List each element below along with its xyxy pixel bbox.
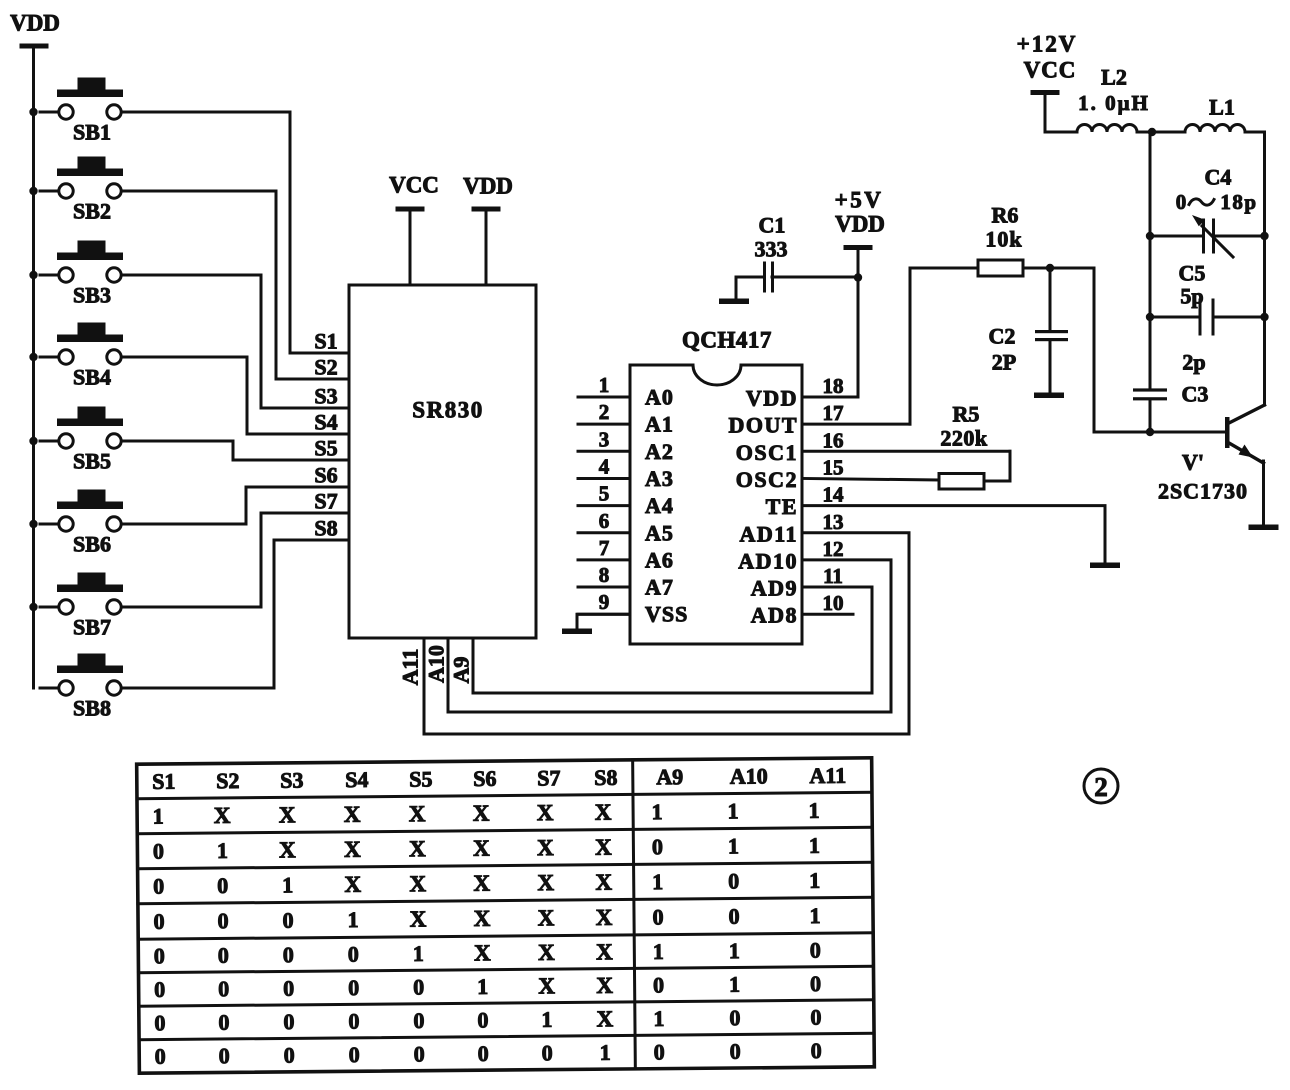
svg-text:1: 1 <box>217 838 228 863</box>
svg-text:5: 5 <box>599 482 610 506</box>
svg-text:17: 17 <box>823 401 844 425</box>
svg-text:S2: S2 <box>314 355 337 380</box>
svg-text:220k: 220k <box>940 426 988 451</box>
svg-text:1: 1 <box>728 833 739 858</box>
svg-text:1: 1 <box>809 833 820 858</box>
svg-text:A1: A1 <box>645 412 674 437</box>
svg-text:0: 0 <box>414 1041 425 1066</box>
svg-text:0: 0 <box>652 904 663 929</box>
svg-text:0: 0 <box>153 838 164 863</box>
svg-text:SR830: SR830 <box>412 398 483 423</box>
svg-text:13: 13 <box>823 510 844 534</box>
svg-text:V': V' <box>1182 450 1204 475</box>
svg-text:OSC1: OSC1 <box>736 440 798 465</box>
svg-text:X: X <box>596 1006 613 1031</box>
svg-text:X: X <box>344 802 361 827</box>
svg-text:SB1: SB1 <box>73 120 111 145</box>
svg-text:DOUT: DOUT <box>728 413 798 438</box>
svg-text:X: X <box>279 802 296 827</box>
svg-text:X: X <box>344 837 361 862</box>
svg-text:2p: 2p <box>1182 350 1205 375</box>
svg-text:12: 12 <box>823 537 844 561</box>
svg-text:A6: A6 <box>645 547 674 572</box>
svg-text:+5V: +5V <box>835 188 884 213</box>
svg-text:0: 0 <box>413 974 424 999</box>
svg-text:1: 1 <box>729 938 740 963</box>
svg-text:1: 1 <box>653 1006 664 1031</box>
svg-text:2: 2 <box>1094 772 1108 802</box>
svg-text:X: X <box>537 870 554 895</box>
svg-text:AD9: AD9 <box>751 576 798 601</box>
svg-text:0: 0 <box>810 971 821 996</box>
svg-text:A5: A5 <box>645 520 674 545</box>
svg-text:S5: S5 <box>409 766 432 791</box>
svg-text:5p: 5p <box>1180 284 1203 309</box>
svg-text:11: 11 <box>823 564 843 588</box>
svg-text:1: 1 <box>600 1040 611 1065</box>
svg-text:X: X <box>474 906 491 931</box>
svg-text:333: 333 <box>755 237 788 262</box>
svg-text:R6: R6 <box>992 203 1019 228</box>
svg-text:QCH417: QCH417 <box>682 328 772 353</box>
svg-text:X: X <box>473 801 490 826</box>
svg-text:S2: S2 <box>216 768 239 793</box>
svg-text:X: X <box>596 939 613 964</box>
svg-text:SB5: SB5 <box>73 449 111 474</box>
svg-text:0: 0 <box>348 975 359 1000</box>
svg-text:0: 0 <box>153 873 164 898</box>
svg-text:A10: A10 <box>424 645 449 683</box>
svg-text:C4: C4 <box>1205 165 1232 190</box>
svg-text:X: X <box>409 801 426 826</box>
svg-text:0: 0 <box>217 873 228 898</box>
svg-text:AD11: AD11 <box>739 521 798 546</box>
svg-text:X: X <box>538 973 555 998</box>
svg-text:0: 0 <box>154 943 165 968</box>
svg-text:1: 1 <box>729 972 740 997</box>
svg-text:2: 2 <box>599 400 610 424</box>
svg-text:6: 6 <box>599 509 610 533</box>
svg-text:0: 0 <box>283 1009 294 1034</box>
svg-text:X: X <box>474 940 491 965</box>
svg-text:SB6: SB6 <box>73 532 111 557</box>
svg-text:SB7: SB7 <box>73 615 111 640</box>
svg-text:SB8: SB8 <box>73 696 111 721</box>
svg-text:0: 0 <box>810 1004 821 1029</box>
svg-text:1: 1 <box>347 907 358 932</box>
svg-text:C1: C1 <box>759 213 786 238</box>
svg-text:VDD: VDD <box>10 11 60 36</box>
svg-text:0: 0 <box>653 972 664 997</box>
svg-text:X: X <box>595 835 612 860</box>
svg-text:0: 0 <box>283 942 294 967</box>
svg-text:14: 14 <box>823 483 845 507</box>
svg-text:0: 0 <box>218 1010 229 1035</box>
svg-text:3: 3 <box>599 427 610 451</box>
svg-text:1: 1 <box>477 974 488 999</box>
svg-text:A4: A4 <box>645 493 674 518</box>
svg-text:10k: 10k <box>985 227 1022 252</box>
svg-text:S4: S4 <box>345 767 368 792</box>
svg-text:0: 0 <box>729 1005 740 1030</box>
svg-text:0: 0 <box>217 908 228 933</box>
svg-text:R5: R5 <box>953 402 980 427</box>
svg-text:0: 0 <box>348 942 359 967</box>
svg-text:X: X <box>473 836 490 861</box>
svg-text:10: 10 <box>823 591 844 615</box>
svg-text:A9: A9 <box>656 764 683 789</box>
svg-text:S8: S8 <box>314 516 337 541</box>
svg-text:X: X <box>279 837 296 862</box>
svg-text:X: X <box>409 871 426 896</box>
svg-text:0: 0 <box>810 937 821 962</box>
svg-text:0: 0 <box>283 976 294 1001</box>
svg-text:0: 0 <box>284 1043 295 1068</box>
svg-text:A11: A11 <box>398 649 423 686</box>
svg-text:1: 1 <box>282 872 293 897</box>
svg-text:X: X <box>596 905 613 930</box>
svg-text:C5: C5 <box>1179 261 1206 286</box>
svg-text:L1: L1 <box>1209 95 1235 120</box>
svg-text:1: 1 <box>413 941 424 966</box>
svg-text:SB2: SB2 <box>73 199 111 224</box>
svg-text:TE: TE <box>766 494 798 519</box>
svg-text:7: 7 <box>599 536 610 560</box>
svg-text:X: X <box>214 803 231 828</box>
svg-text:0: 0 <box>477 1007 488 1032</box>
svg-text:0: 0 <box>155 1044 166 1069</box>
svg-text:1: 1 <box>651 799 662 824</box>
svg-text:X: X <box>473 871 490 896</box>
svg-text:VCC: VCC <box>389 173 439 198</box>
svg-text:0: 0 <box>282 908 293 933</box>
svg-text:X: X <box>537 800 554 825</box>
svg-text:16: 16 <box>823 428 844 452</box>
svg-text:L2: L2 <box>1101 65 1127 90</box>
svg-text:1: 1 <box>809 868 820 893</box>
svg-text:4: 4 <box>599 454 610 478</box>
svg-text:VDD: VDD <box>835 212 885 237</box>
svg-text:A3: A3 <box>645 466 674 491</box>
svg-text:0: 0 <box>153 909 164 934</box>
svg-text:0: 0 <box>348 1009 359 1034</box>
svg-text:VSS: VSS <box>645 602 688 627</box>
svg-text:AD8: AD8 <box>751 603 798 628</box>
svg-text:9: 9 <box>599 590 610 614</box>
svg-text:0: 0 <box>811 1038 822 1063</box>
svg-text:S3: S3 <box>280 768 303 793</box>
svg-text:1: 1 <box>652 869 663 894</box>
svg-text:X: X <box>595 870 612 895</box>
svg-text:OSC2: OSC2 <box>736 467 798 492</box>
svg-text:2P: 2P <box>992 350 1016 375</box>
svg-text:S4: S4 <box>314 410 337 435</box>
svg-text:S7: S7 <box>314 489 337 514</box>
svg-text:X: X <box>538 940 555 965</box>
svg-text:18: 18 <box>823 374 844 398</box>
svg-text:SB3: SB3 <box>73 283 111 308</box>
svg-text:0: 0 <box>654 1039 665 1064</box>
svg-text:0: 0 <box>478 1041 489 1066</box>
svg-text:0: 0 <box>1176 190 1187 214</box>
svg-text:0: 0 <box>728 904 739 929</box>
svg-text:X: X <box>595 800 612 825</box>
svg-text:0: 0 <box>730 1039 741 1064</box>
svg-text:S5: S5 <box>314 436 337 461</box>
svg-text:1. 0μH: 1. 0μH <box>1078 91 1150 115</box>
svg-text:1: 1 <box>653 939 664 964</box>
svg-text:0: 0 <box>218 943 229 968</box>
svg-text:X: X <box>538 905 555 930</box>
svg-text:VDD: VDD <box>746 386 798 411</box>
svg-text:A11: A11 <box>809 763 846 788</box>
svg-text:0: 0 <box>728 868 739 893</box>
svg-text:S7: S7 <box>537 765 560 790</box>
svg-text:X: X <box>410 906 427 931</box>
svg-text:AD10: AD10 <box>738 548 798 573</box>
svg-text:S8: S8 <box>594 765 617 790</box>
svg-text:0: 0 <box>349 1042 360 1067</box>
svg-text:C3: C3 <box>1182 382 1209 407</box>
svg-text:VCC: VCC <box>1024 58 1077 83</box>
svg-text:C2: C2 <box>989 324 1016 349</box>
svg-text:S1: S1 <box>152 769 175 794</box>
svg-text:S3: S3 <box>314 384 337 409</box>
svg-text:0: 0 <box>413 1008 424 1033</box>
svg-text:SB4: SB4 <box>73 365 111 390</box>
svg-text:A2: A2 <box>645 439 674 464</box>
svg-text:0: 0 <box>652 834 663 859</box>
svg-text:2SC1730: 2SC1730 <box>1158 479 1248 504</box>
svg-text:0: 0 <box>219 1043 230 1068</box>
svg-text:1: 1 <box>599 373 610 397</box>
svg-text:A7: A7 <box>645 575 674 600</box>
svg-text:1: 1 <box>808 798 819 823</box>
svg-text:0: 0 <box>154 1010 165 1035</box>
svg-text:S1: S1 <box>314 329 337 354</box>
svg-text:X: X <box>537 835 554 860</box>
svg-text:1: 1 <box>809 903 820 928</box>
svg-text:A0: A0 <box>645 385 674 410</box>
svg-text:+12V: +12V <box>1017 32 1078 57</box>
svg-text:VDD: VDD <box>463 174 513 199</box>
svg-text:1: 1 <box>541 1007 552 1032</box>
svg-text:A9: A9 <box>449 657 474 684</box>
svg-text:X: X <box>344 872 361 897</box>
svg-text:8: 8 <box>599 563 610 587</box>
svg-text:0: 0 <box>154 977 165 1002</box>
svg-text:1: 1 <box>153 803 164 828</box>
svg-text:X: X <box>409 836 426 861</box>
svg-text:0: 0 <box>218 976 229 1001</box>
svg-text:18p: 18p <box>1220 190 1257 214</box>
svg-text:A10: A10 <box>730 763 768 788</box>
svg-text:S6: S6 <box>473 766 496 791</box>
svg-text:X: X <box>596 973 613 998</box>
svg-text:15: 15 <box>823 455 844 479</box>
svg-text:1: 1 <box>727 798 738 823</box>
svg-text:0: 0 <box>542 1040 553 1065</box>
svg-text:S6: S6 <box>314 463 337 488</box>
